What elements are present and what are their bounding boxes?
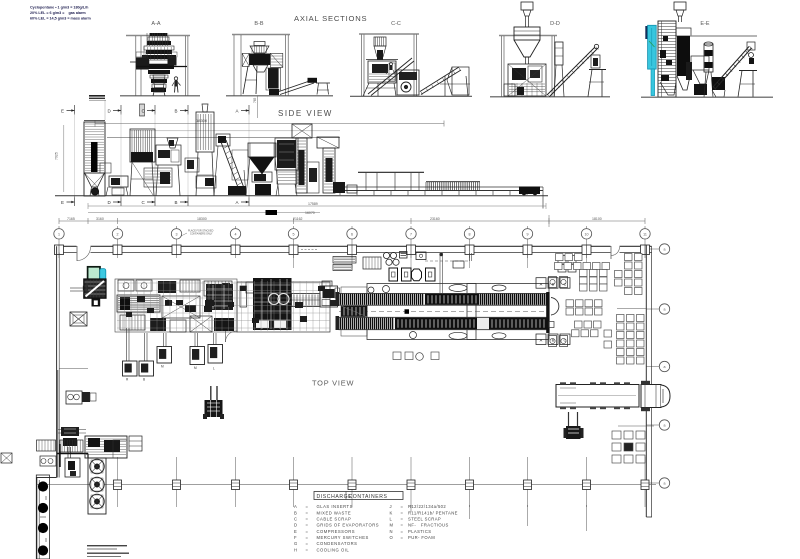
- svg-text:C: C: [294, 517, 297, 522]
- svg-text:E: E: [61, 109, 64, 114]
- svg-text:Cyclopentane • 1 g/m3 = 180g/L: Cyclopentane • 1 g/m3 = 180g/L/h: [30, 6, 89, 10]
- svg-text:B: B: [294, 510, 297, 515]
- svg-text:a: a: [664, 482, 666, 486]
- svg-text:18100: 18100: [592, 217, 602, 221]
- svg-text:A: A: [236, 109, 239, 114]
- svg-text:M: M: [390, 523, 394, 528]
- svg-text:B-B: B-B: [254, 21, 264, 27]
- svg-text:1: 1: [58, 233, 60, 237]
- svg-text:MIXED WASTE: MIXED WASTE: [317, 510, 352, 515]
- svg-text:L: L: [213, 367, 215, 371]
- svg-text:CABLE SCRAP: CABLE SCRAP: [317, 517, 352, 522]
- svg-text:23160: 23160: [430, 217, 440, 221]
- svg-text:GLAS INSERTS: GLAS INSERTS: [317, 504, 353, 509]
- svg-text:G: G: [294, 541, 297, 546]
- svg-text:GRIDS OF EVAPORATORS: GRIDS OF EVAPORATORS: [317, 523, 380, 528]
- svg-text:H: H: [294, 547, 297, 552]
- svg-text:7: 7: [410, 233, 412, 237]
- svg-text:E-E: E-E: [700, 21, 710, 27]
- svg-text:D-D: D-D: [550, 21, 560, 27]
- svg-text:B: B: [175, 109, 178, 114]
- svg-text:a: a: [664, 424, 666, 428]
- svg-text:E: E: [61, 200, 64, 205]
- svg-text:PLASTICS: PLASTICS: [408, 529, 431, 534]
- svg-text:A: A: [294, 504, 297, 509]
- svg-text:21162: 21162: [293, 217, 303, 221]
- svg-text:18300: 18300: [197, 217, 207, 221]
- svg-text:7165: 7165: [67, 217, 75, 221]
- svg-text:a: a: [664, 308, 666, 312]
- svg-text:STEEL SCRAP: STEEL SCRAP: [408, 517, 441, 522]
- svg-text:MERCURY SWITCHES: MERCURY SWITCHES: [317, 535, 369, 540]
- svg-text:A: A: [540, 338, 543, 343]
- svg-text:11: 11: [643, 233, 647, 237]
- svg-text:K: K: [390, 510, 393, 515]
- svg-text:C-C: C-C: [391, 21, 401, 27]
- svg-text:E: E: [294, 529, 297, 534]
- svg-text:B: B: [175, 200, 178, 205]
- svg-text:4: 4: [235, 233, 237, 237]
- svg-text:CONDENSATORS: CONDENSATORS: [317, 541, 358, 546]
- svg-text:3: 3: [176, 233, 178, 237]
- svg-text:17589: 17589: [308, 202, 318, 206]
- svg-text:COMPRESSORS: COMPRESSORS: [317, 529, 356, 534]
- svg-text:TOP VIEW: TOP VIEW: [312, 379, 354, 388]
- svg-text:R12/22/134a/502: R12/22/134a/502: [408, 504, 446, 509]
- svg-text:16070: 16070: [305, 211, 315, 215]
- svg-text:COOLING OIL: COOLING OIL: [317, 547, 350, 552]
- svg-text:PUR- FOAM: PUR- FOAM: [408, 535, 435, 540]
- svg-text:3160: 3160: [96, 217, 104, 221]
- svg-text:J: J: [390, 504, 392, 509]
- svg-text:7925: 7925: [55, 152, 59, 160]
- svg-text:8: 8: [469, 233, 471, 237]
- svg-text:N: N: [390, 529, 393, 534]
- svg-text:DISCHARGE: DISCHARGE: [317, 494, 353, 500]
- svg-text:a: a: [664, 248, 666, 252]
- svg-text:D: D: [294, 523, 297, 528]
- svg-text:20% LEL = 6 g/m3 = gas alar: 20% LEL = 6 g/m3 = gas alarm: [30, 11, 86, 15]
- svg-text:A-A: A-A: [151, 21, 161, 27]
- svg-text:AXIAL SECTIONS: AXIAL SECTIONS: [294, 14, 367, 23]
- svg-text:B: B: [143, 378, 145, 382]
- svg-text:NF- FRACTIOUS: NF- FRACTIOUS: [408, 523, 449, 528]
- svg-text:10: 10: [585, 233, 589, 237]
- svg-text:A: A: [540, 281, 543, 286]
- svg-text:A: A: [236, 200, 239, 205]
- svg-text:M: M: [194, 366, 197, 370]
- svg-text:CONTAINERS: CONTAINERS: [349, 494, 388, 500]
- svg-text:F: F: [294, 535, 297, 540]
- svg-text:6: 6: [351, 233, 353, 237]
- svg-text:R11/R141b/ PENTANE: R11/R141b/ PENTANE: [408, 510, 458, 515]
- svg-text:CONTAINERS ONLY: CONTAINERS ONLY: [190, 233, 213, 236]
- svg-text:9: 9: [527, 233, 529, 237]
- svg-text:M: M: [161, 365, 164, 369]
- svg-text:5: 5: [293, 233, 295, 237]
- svg-text:a: a: [664, 365, 666, 369]
- svg-text:60% LEL = 14,5 g/m3 = mass ala: 60% LEL = 14,5 g/m3 = mass alarm: [30, 17, 92, 21]
- svg-text:2: 2: [117, 233, 119, 237]
- svg-text:SIDE VIEW: SIDE VIEW: [278, 109, 333, 118]
- svg-text:765: 765: [253, 97, 257, 103]
